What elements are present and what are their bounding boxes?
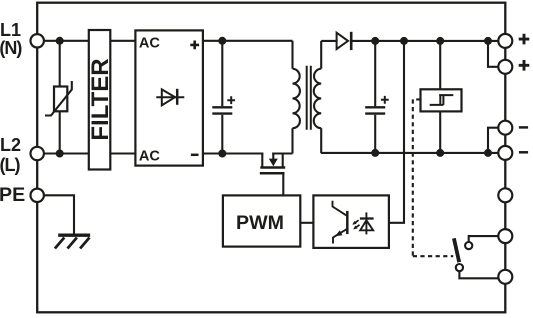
capacitor C2 plates <box>365 107 385 113</box>
svg-text:(L): (L) <box>0 155 20 175</box>
wire relay upper contact to terminal <box>469 236 499 241</box>
terminal plus 1 <box>498 34 512 48</box>
varistor RV1 body <box>54 87 67 112</box>
wire filter to rectifier (top) <box>110 40 136 42</box>
svg-text:PE: PE <box>0 184 25 206</box>
rectifier plus mark <box>190 41 199 50</box>
node feedback tap junction <box>400 37 408 45</box>
wire secondary to diode D2 <box>321 40 337 42</box>
wire feedback from plus bus to optocoupler <box>389 41 404 223</box>
wire varistor top lead <box>59 41 61 87</box>
capacitor C2 polarity plus <box>381 96 389 104</box>
transistor Q1 channel bar <box>260 166 285 169</box>
dashed link hysteresis to relay <box>413 99 453 256</box>
optocoupler LED lead <box>365 212 367 234</box>
wire output bus plus <box>351 40 498 42</box>
terminal L1 <box>31 34 44 47</box>
optocoupler phototransistor base bar <box>346 211 349 234</box>
terminal minus 1 <box>498 121 512 135</box>
transformer T1 primary bottom lead <box>291 128 293 153</box>
terminal relay a <box>498 229 512 243</box>
wire DC bus bottom (rectifier - to mosfet source) <box>202 152 263 154</box>
label output plus 1 <box>519 34 530 45</box>
capacitor C1 polarity plus <box>227 96 235 104</box>
wire L2 to filter <box>44 152 89 154</box>
ground symbol bar <box>58 233 90 236</box>
rectifier block U1 <box>135 30 203 165</box>
rectifier diode symbol triangle <box>162 89 175 105</box>
terminal relay b <box>498 270 512 284</box>
wire cap C1 upper lead <box>221 41 223 106</box>
diode D2 triangle <box>337 33 348 49</box>
wire L1 to filter <box>44 40 89 42</box>
rectifier diode symbol lead <box>156 96 184 98</box>
ground symbol hatches <box>55 238 90 249</box>
terminal plus 2 <box>498 60 512 74</box>
wire varistor bottom lead <box>59 111 61 153</box>
wire filter to rectifier (bottom) <box>110 152 136 154</box>
label output plus 2 <box>519 60 530 71</box>
transformer T1 primary top lead <box>291 41 293 69</box>
transformer T1 secondary top lead <box>320 41 322 69</box>
relay lower contact circle <box>456 264 463 271</box>
rectifier minus mark <box>191 154 199 157</box>
svg-text:PWM: PWM <box>236 212 284 234</box>
optocoupler phototransistor collector <box>333 201 347 216</box>
node hysteresis tap junction <box>436 37 444 45</box>
optocoupler phototransistor emitter <box>333 229 346 243</box>
node cap C2 bottom junction <box>371 149 379 157</box>
transformer T1 secondary winding <box>314 69 321 129</box>
hysteresis block U2 <box>421 89 462 111</box>
relay upper contact circle <box>465 242 472 249</box>
transformer T1 primary winding <box>293 69 300 129</box>
wire cap C1 lower lead <box>221 115 223 154</box>
svg-text:L2: L2 <box>0 135 21 155</box>
svg-text:(N): (N) <box>0 38 22 58</box>
node minus stub junction <box>484 149 492 157</box>
transistor Q1 gate bar <box>260 172 285 175</box>
wire PE to ground <box>44 195 74 234</box>
svg-text:AC: AC <box>139 35 161 51</box>
optocoupler light arrows <box>355 220 359 227</box>
transistor Q1 source stub <box>261 154 263 168</box>
wire hysteresis block top lead <box>439 41 441 89</box>
node plus stub junction <box>484 37 492 45</box>
diode D2 cathode bar <box>350 32 353 50</box>
varistor RV1 strike line <box>45 81 72 116</box>
wire cap C2 upper lead <box>374 41 376 106</box>
wire PWM to optocoupler <box>300 222 313 224</box>
node L2 junction <box>56 150 64 158</box>
svg-text:FILTER: FILTER <box>87 58 114 140</box>
node hysteresis bottom junction <box>436 149 444 157</box>
svg-text:L1: L1 <box>0 20 21 40</box>
filter block <box>89 30 111 170</box>
wire output bus minus <box>321 152 499 154</box>
label output minus 1 <box>519 126 528 129</box>
PWM block U4 <box>223 195 300 246</box>
transformer T1 secondary bottom lead <box>320 128 322 153</box>
optocoupler LED triangle <box>360 220 373 230</box>
node cap C2 top junction <box>371 37 379 45</box>
node cap C1 bottom junction <box>218 150 226 158</box>
wire gate to PWM <box>282 173 284 195</box>
wire stub to first minus terminal <box>488 128 498 153</box>
transistor Q1 drain wire <box>272 152 292 154</box>
terminal L2 <box>31 147 44 160</box>
svg-text:AC: AC <box>139 148 161 164</box>
wire hysteresis block bottom lead <box>439 111 441 152</box>
transistor Q1 substrate arrow <box>272 153 274 160</box>
node cap C1 top junction <box>218 37 226 45</box>
wire stub to second plus terminal <box>488 41 498 67</box>
transformer T1 core bars <box>307 66 311 130</box>
terminal minus 2 <box>498 146 512 160</box>
relay contact K1 lever <box>454 238 459 262</box>
optocoupler LED cathode bar <box>360 217 374 219</box>
node L1 junction <box>56 37 64 45</box>
wire DC bus top (rectifier + to transformer) <box>202 40 293 42</box>
transistor Q1 drain stub <box>282 154 284 168</box>
label output minus 2 <box>519 151 528 154</box>
capacitor C1 plates <box>212 107 232 113</box>
wire relay lower contact to terminal <box>459 272 498 279</box>
terminal signal spare <box>498 188 512 202</box>
hysteresis symbol <box>430 95 454 105</box>
wire cap C2 lower lead <box>374 115 376 153</box>
rectifier diode symbol cathode bar <box>176 89 179 105</box>
terminal PE <box>31 189 44 202</box>
optocoupler U3 box <box>313 195 389 248</box>
